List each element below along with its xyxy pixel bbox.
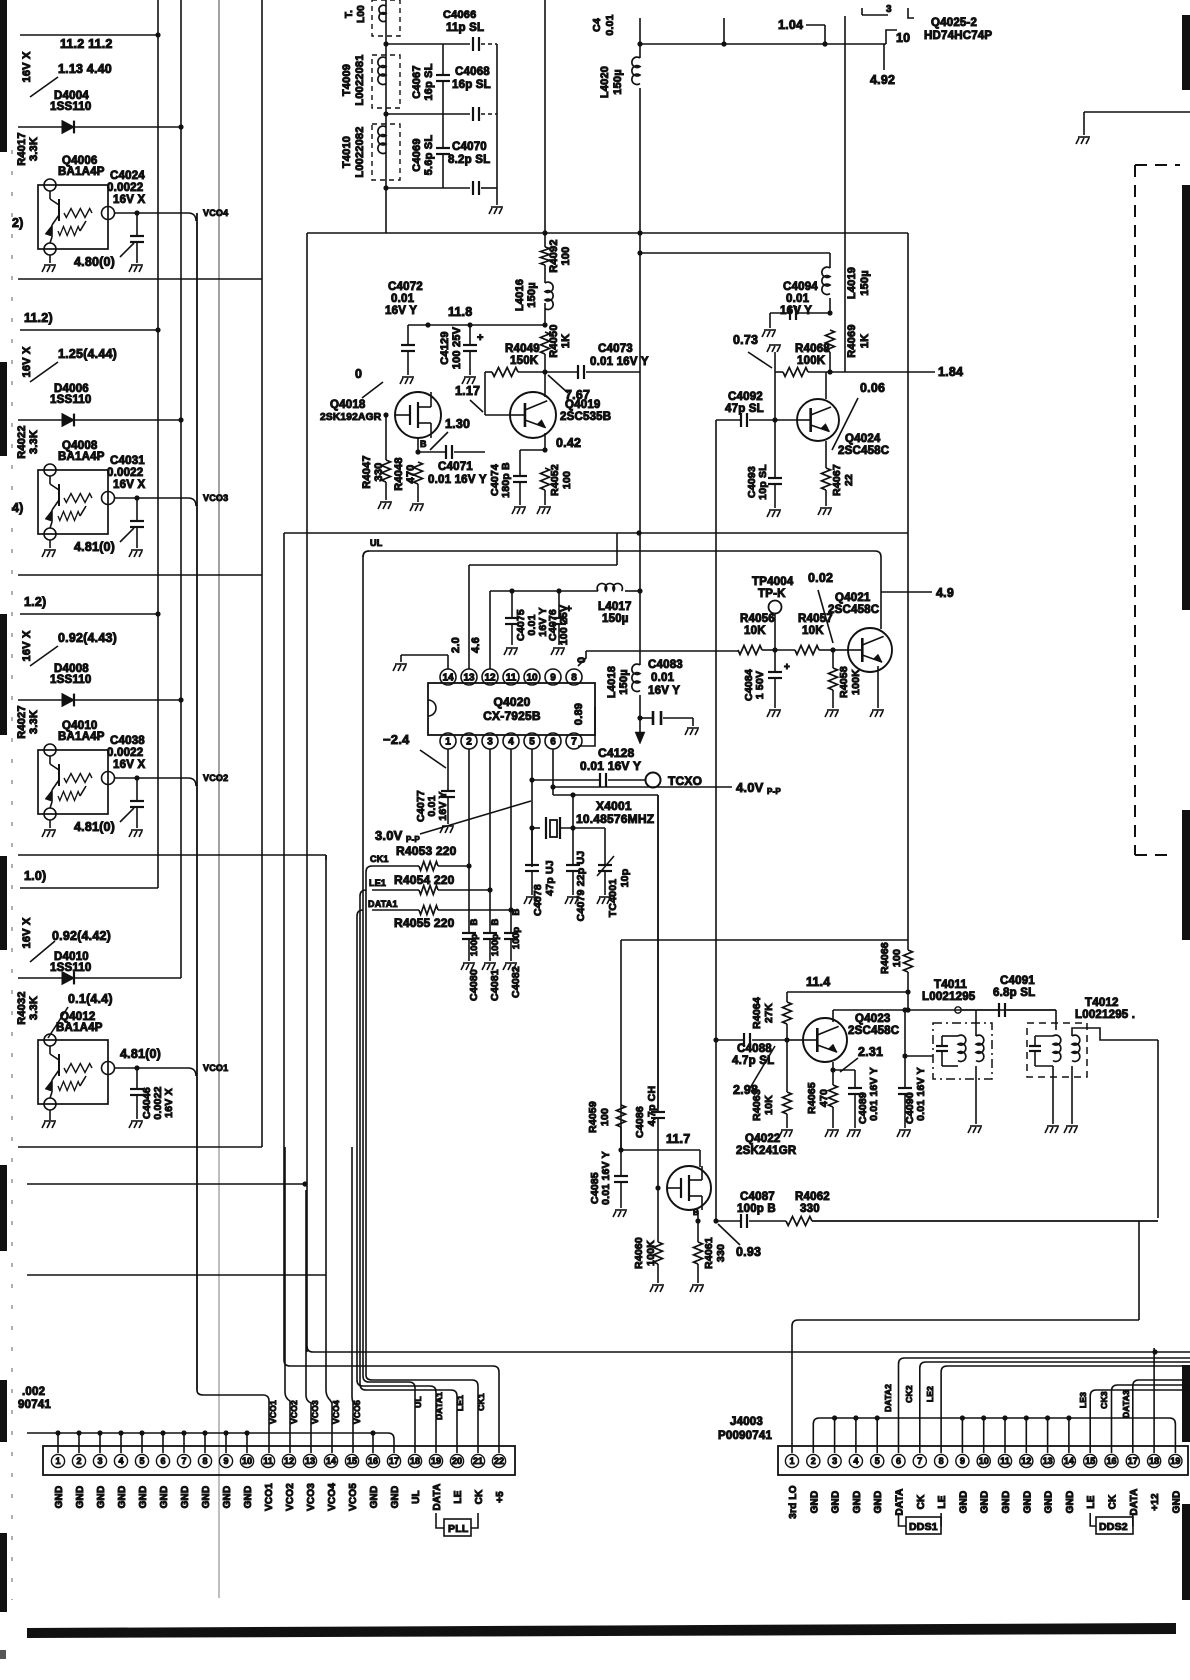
wire bus vertical +5 (283, 533, 285, 1360)
svg-text:100: 100 (891, 949, 903, 967)
svg-text:100: 100 (560, 247, 572, 266)
pin 9 J4002 (219, 1454, 232, 1467)
svg-text:11.2 11.2: 11.2 11.2 (60, 37, 113, 51)
svg-text:R4050: R4050 (548, 324, 560, 357)
svg-text:16V X: 16V X (21, 51, 33, 82)
wire leader 0.1(4.4) (48, 1007, 68, 1038)
svg-text:GND: GND (809, 1491, 820, 1514)
svg-text:0.0022: 0.0022 (107, 467, 143, 479)
svg-text:0.0022: 0.0022 (107, 747, 143, 759)
boundary dashed box (1135, 165, 1180, 855)
wire emitter Q4021 (877, 666, 879, 708)
pin 1 J4002 (51, 1454, 64, 1467)
svg-text:C4079 22p UJ: C4079 22p UJ (575, 851, 587, 922)
svg-text:C4066: C4066 (443, 9, 476, 21)
pin 19 J4003 (1169, 1454, 1182, 1467)
svg-text:10p SL: 10p SL (757, 464, 769, 500)
svg-text:L0022081: L0022081 (354, 54, 366, 105)
svg-text:2.31: 2.31 (858, 1045, 883, 1059)
svg-text:0.89: 0.89 (573, 703, 585, 725)
node TCXO (646, 773, 661, 788)
svg-text:5: 5 (139, 1456, 144, 1466)
svg-text:0.02: 0.02 (808, 571, 833, 585)
pin 16 J4002 (366, 1454, 379, 1467)
svg-text:10K: 10K (802, 625, 824, 637)
svg-text:C4088: C4088 (737, 1043, 772, 1055)
wire CK1 riser (366, 866, 478, 1453)
label 0.06 (832, 398, 858, 450)
pin 12 Q4020 (482, 669, 498, 685)
svg-text:GND: GND (1001, 1491, 1012, 1514)
svg-text:100: 100 (561, 471, 573, 489)
svg-text:CK: CK (916, 1494, 927, 1509)
svg-text:3: 3 (487, 737, 493, 748)
resistor R4058 100K (832, 650, 834, 668)
pin 14 J4003 (1062, 1454, 1075, 1467)
wire emitter (544, 433, 546, 450)
svg-text:C4068: C4068 (455, 66, 490, 78)
svg-text:90741: 90741 (18, 1399, 51, 1411)
svg-text:DDS2: DDS2 (1099, 1521, 1128, 1533)
svg-text:R4047: R4047 (361, 455, 373, 488)
svg-text:C4080: C4080 (468, 969, 480, 1001)
svg-text:R4056: R4056 (740, 613, 775, 625)
svg-text:330: 330 (373, 463, 385, 482)
wire source Q4022 (697, 1211, 699, 1221)
svg-text:DDS1: DDS1 (909, 1521, 938, 1533)
svg-text:C4086: C4086 (634, 1106, 646, 1138)
pin 15 J4002 (345, 1454, 358, 1467)
svg-text:GND: GND (159, 1486, 170, 1509)
svg-text:0.01 16V Y: 0.01 16V Y (580, 759, 641, 773)
pin 14 J4002 (324, 1454, 337, 1467)
svg-text:R4061: R4061 (703, 1237, 715, 1269)
svg-text:14: 14 (326, 1456, 336, 1466)
svg-text:6: 6 (896, 1456, 901, 1466)
svg-text:J4003: J4003 (730, 1416, 763, 1428)
node open circle (955, 1007, 961, 1013)
svg-text:Q4023: Q4023 (855, 1013, 891, 1025)
svg-text:3: 3 (97, 1456, 102, 1466)
pin 16 J4003 (1105, 1454, 1118, 1467)
wire VCO4 output (114, 212, 188, 214)
wire LE3 CK3 DATA3 (1090, 1390, 1190, 1453)
svg-text:R4066: R4066 (879, 942, 891, 974)
wire rail (284, 532, 908, 534)
svg-text:150µ: 150µ (618, 669, 630, 695)
pin 14 Q4020 (440, 669, 456, 685)
svg-text:DATA1: DATA1 (434, 1392, 444, 1420)
svg-text:100 25V: 100 25V (451, 326, 463, 369)
svg-text:1SS110: 1SS110 (50, 394, 92, 406)
svg-text:HD74HC74P: HD74HC74P (924, 30, 992, 42)
wire output rail (812, 1220, 1158, 1222)
wire GND bus J4002 (27, 1432, 388, 1434)
svg-text:1: 1 (55, 1456, 60, 1466)
capacitor C4071 0.01 16V Y (418, 451, 446, 453)
svg-text:0.06: 0.06 (860, 381, 885, 395)
svg-text:11p SL: 11p SL (446, 22, 484, 34)
label 0.93 (718, 1224, 740, 1245)
svg-text:TP-K: TP-K (758, 588, 786, 600)
svg-text:R4054 220: R4054 220 (394, 873, 455, 887)
svg-text:100K: 100K (850, 669, 862, 695)
svg-text:100p: 100p (511, 927, 522, 949)
svg-text:5: 5 (529, 737, 535, 748)
pin 5 Q4020 (524, 733, 540, 749)
svg-text:4.81(0): 4.81(0) (74, 540, 115, 554)
svg-text:B: B (469, 918, 480, 925)
svg-text:16V X: 16V X (21, 630, 33, 661)
svg-text:1: 1 (445, 737, 451, 748)
svg-text:16p SL: 16p SL (423, 63, 435, 100)
svg-text:10: 10 (979, 1456, 989, 1466)
wire UL riser (363, 551, 415, 1453)
svg-text:CK: CK (474, 1489, 485, 1504)
svg-text:16: 16 (1106, 1456, 1116, 1466)
svg-text:CK3: CK3 (1099, 1391, 1109, 1409)
svg-text:9: 9 (960, 1456, 965, 1466)
svg-text:100p: 100p (490, 934, 501, 956)
pin 10 Q4020 (524, 669, 540, 685)
svg-text:R4065: R4065 (806, 1082, 818, 1114)
svg-text:2SC458C: 2SC458C (828, 604, 879, 616)
wire DATA1 riser (357, 910, 436, 1453)
svg-text:0: 0 (576, 657, 588, 663)
wire L4017 rail (490, 590, 598, 592)
svg-text:BA1A4P: BA1A4P (58, 166, 105, 178)
svg-text:T4009: T4009 (341, 64, 353, 96)
svg-text:VCO4: VCO4 (327, 1483, 338, 1511)
wire FET source (417, 438, 419, 452)
svg-text:Q4024: Q4024 (845, 433, 881, 445)
wire 4.0Vp-p (552, 749, 554, 795)
inductor L4019 150u (829, 253, 831, 268)
wire (844, 16, 846, 372)
svg-text:27K: 27K (763, 1003, 775, 1023)
label 7.67 (548, 375, 568, 393)
svg-text:1K: 1K (859, 334, 871, 348)
wire top rail (640, 43, 886, 45)
svg-text:470: 470 (405, 465, 417, 484)
resistor R4052 100 (541, 468, 550, 490)
wire bus vertical (261, 0, 263, 1147)
resistor R4048 470 (414, 462, 423, 484)
svg-text:GND: GND (958, 1491, 969, 1514)
svg-text:UL: UL (413, 1396, 423, 1408)
svg-text:Q4021: Q4021 (835, 592, 871, 604)
svg-text:C4129: C4129 (439, 331, 451, 364)
svg-text:P-P: P-P (767, 787, 781, 796)
svg-text:C4070: C4070 (452, 141, 487, 153)
svg-text:1.2): 1.2) (24, 595, 46, 609)
wire (639, 233, 641, 591)
wire leader voltage (30, 646, 58, 666)
pin 17 J4003 (1126, 1454, 1139, 1467)
svg-text:Q4019: Q4019 (565, 399, 601, 411)
pin 8 Q4020 (566, 669, 582, 685)
svg-text:16V X: 16V X (113, 479, 145, 491)
svg-text:GND: GND (75, 1486, 86, 1509)
wire 11.8 rail (408, 324, 545, 326)
pin 2 J4002 (72, 1454, 85, 1467)
wire pin1 C4077 (447, 749, 449, 791)
svg-text:1 50V: 1 50V (754, 671, 766, 699)
pin 13 Q4020 (461, 669, 477, 685)
pin 4 J4002 (114, 1454, 127, 1467)
pin 7 J4003 (913, 1454, 926, 1467)
wire 11.7 (621, 1149, 700, 1151)
wire bus vertical (325, 855, 327, 1390)
svg-text:4: 4 (853, 1456, 858, 1466)
svg-text:C4087: C4087 (740, 1191, 775, 1203)
svg-text:2SC458C: 2SC458C (848, 1025, 899, 1037)
wire rail (18, 278, 262, 280)
svg-text:3: 3 (886, 4, 892, 15)
pin 5 J4003 (871, 1454, 884, 1467)
svg-text:20: 20 (452, 1456, 462, 1466)
svg-text:R4048: R4048 (393, 457, 405, 490)
svg-text:Q4020: Q4020 (493, 695, 530, 709)
svg-text:0.01 16V Y: 0.01 16V Y (428, 474, 487, 486)
svg-text:VCO3: VCO3 (306, 1483, 317, 1511)
wire bus vertical (351, 1147, 353, 1396)
svg-text:11: 11 (263, 1456, 273, 1466)
scan artifact left edge bars (0, 0, 7, 152)
wire VCO1 output (114, 1067, 188, 1069)
svg-text:12: 12 (484, 673, 496, 684)
svg-text:11.8: 11.8 (448, 305, 472, 319)
pin 18 J4002 (408, 1454, 421, 1467)
wire rail (27, 1183, 305, 1185)
pin 10 J4003 (977, 1454, 990, 1467)
svg-text:10K: 10K (763, 1095, 775, 1115)
wire rail (27, 1274, 326, 1276)
wire (385, 0, 387, 233)
svg-text:11.2): 11.2) (24, 311, 53, 325)
wire L4018 (639, 591, 641, 665)
scan artifact fold crease (218, 0, 220, 1147)
wire (774, 372, 776, 420)
svg-text:2SC458C: 2SC458C (838, 445, 889, 457)
svg-text:1SS110: 1SS110 (50, 674, 92, 686)
svg-text:T4012: T4012 (1085, 997, 1119, 1009)
svg-text:2: 2 (76, 1456, 81, 1466)
transistor Q4023 2SC458C (803, 1018, 847, 1062)
svg-text:3: 3 (832, 1456, 837, 1466)
pin 1 Q4020 (440, 733, 456, 749)
svg-text:C4128: C4128 (598, 746, 634, 760)
svg-text:0.01: 0.01 (651, 672, 675, 684)
svg-text:14: 14 (1064, 1456, 1074, 1466)
wire bus vertical (157, 0, 159, 888)
svg-text:1K: 1K (560, 334, 572, 348)
svg-text:0.01: 0.01 (391, 293, 415, 305)
svg-text:−2.4: −2.4 (383, 732, 410, 747)
svg-text:LE1: LE1 (369, 878, 386, 888)
svg-text:TCXO: TCXO (668, 774, 702, 788)
pin 19 J4002 (429, 1454, 442, 1467)
svg-text:GND: GND (138, 1486, 149, 1509)
pin 21 J4002 (471, 1454, 484, 1467)
wire bus vertical (306, 233, 308, 1352)
svg-text:12: 12 (284, 1456, 294, 1466)
svg-text:2.0: 2.0 (450, 637, 462, 653)
svg-text:19: 19 (1170, 1456, 1180, 1466)
svg-text:CK2: CK2 (904, 1385, 914, 1403)
svg-text:1.84: 1.84 (938, 365, 963, 379)
wire to Q4019 base (484, 372, 486, 415)
svg-text:LE3: LE3 (1078, 1392, 1088, 1408)
svg-text:0.73: 0.73 (733, 333, 758, 347)
svg-text:+: + (477, 332, 484, 344)
pin 6 J4002 (156, 1454, 169, 1467)
svg-text:0.92(4.43): 0.92(4.43) (58, 631, 117, 645)
svg-text:14: 14 (442, 673, 454, 684)
svg-text:GND: GND (96, 1486, 107, 1509)
svg-text:R4017: R4017 (16, 132, 28, 165)
svg-text:CK: CK (1108, 1494, 1119, 1509)
svg-text:2): 2) (12, 216, 24, 230)
svg-text:DATA2: DATA2 (883, 1384, 893, 1412)
wire bus vertical (180, 0, 182, 978)
svg-text:17: 17 (389, 1456, 399, 1466)
svg-text:6: 6 (550, 737, 556, 748)
svg-text:5: 5 (875, 1456, 880, 1466)
svg-text:10: 10 (896, 31, 910, 45)
svg-text:R4022: R4022 (16, 425, 28, 458)
svg-text:R4032: R4032 (16, 991, 28, 1024)
wire leader voltage (30, 362, 58, 382)
wire collector Q4023 (832, 1010, 834, 1022)
svg-text:C4024: C4024 (110, 170, 145, 182)
transistor Q4022 2SK241GR FET (667, 1166, 711, 1210)
svg-text:LE: LE (1086, 1495, 1097, 1508)
label 1.30 (430, 432, 448, 450)
svg-text:VCO5: VCO5 (348, 1483, 359, 1511)
pin 1 J4003 (785, 1454, 798, 1467)
svg-text:4.7p CH: 4.7p CH (646, 1086, 658, 1127)
thick separator bar bottom (27, 1623, 1176, 1638)
svg-text:GND: GND (1171, 1491, 1182, 1514)
wire leader voltage (30, 77, 58, 97)
wire pin3 column (489, 749, 491, 933)
svg-text:0.01: 0.01 (786, 293, 810, 305)
svg-text:330: 330 (800, 1203, 820, 1215)
svg-text:8: 8 (939, 1456, 944, 1466)
svg-text:GND: GND (873, 1491, 884, 1514)
svg-text:BA1A4P: BA1A4P (58, 451, 105, 463)
svg-text:13: 13 (1043, 1456, 1053, 1466)
wire pin2 column (468, 749, 470, 933)
svg-text:16V X: 16V X (163, 1088, 175, 1118)
svg-text:4.6: 4.6 (470, 637, 482, 653)
capacitor C4024 body (136, 213, 138, 236)
svg-text:R4052: R4052 (549, 464, 561, 496)
ground (1052, 1066, 1054, 1124)
svg-text:17: 17 (1128, 1456, 1138, 1466)
wire DATA2 CK2 LE2 (899, 1358, 1190, 1453)
svg-text:15: 15 (347, 1456, 357, 1466)
ground (774, 352, 776, 372)
svg-text:LE: LE (453, 1490, 464, 1503)
svg-text:VCO2: VCO2 (203, 773, 228, 783)
svg-text:Q4022: Q4022 (745, 1133, 781, 1145)
svg-text:8.2p SL: 8.2p SL (448, 154, 490, 166)
svg-text:CK1: CK1 (476, 1393, 486, 1411)
capacitor C4078 47p UJ (531, 828, 533, 865)
pin 4 Q4020 (503, 733, 519, 749)
svg-text:L4020: L4020 (599, 66, 611, 98)
pin 13 J4002 (303, 1454, 316, 1467)
svg-text:C4083: C4083 (648, 659, 683, 671)
resistor R4050 1K (541, 332, 550, 354)
svg-text:L4016: L4016 (514, 279, 526, 311)
svg-text:9: 9 (550, 673, 556, 684)
wire LE1 riser (360, 890, 457, 1453)
svg-text:0.0022: 0.0022 (107, 182, 143, 194)
svg-text:L0021295: L0021295 (922, 991, 976, 1003)
svg-text:TP4004: TP4004 (752, 576, 794, 588)
pin 5 J4002 (135, 1454, 148, 1467)
pin 13 J4003 (1041, 1454, 1054, 1467)
svg-text:1.25(4.44): 1.25(4.44) (58, 347, 117, 361)
pin 9 J4003 (956, 1454, 969, 1467)
pin 6 J4003 (892, 1454, 905, 1467)
svg-text:10p: 10p (619, 869, 631, 888)
svg-text:L00: L00 (356, 5, 367, 23)
svg-text:VCO2: VCO2 (285, 1483, 296, 1511)
svg-text:0.01 16V Y: 0.01 16V Y (915, 1067, 927, 1121)
inductor L4016 150u (544, 265, 546, 283)
svg-text:0.01 16V Y: 0.01 16V Y (600, 1151, 612, 1205)
ground (1071, 1066, 1073, 1124)
svg-text:2: 2 (811, 1456, 816, 1466)
wire VCO3 output (114, 497, 188, 499)
svg-text:3.3K: 3.3K (28, 137, 40, 161)
svg-text:C4081: C4081 (489, 969, 501, 1001)
svg-text:10: 10 (242, 1456, 252, 1466)
svg-text:LE1: LE1 (455, 1395, 465, 1411)
svg-text:C4038: C4038 (110, 735, 145, 747)
svg-text:11: 11 (1000, 1456, 1010, 1466)
pin 8 J4002 (198, 1454, 211, 1467)
svg-text:GND: GND (1065, 1491, 1076, 1514)
svg-text:6: 6 (160, 1456, 165, 1466)
svg-text:16: 16 (368, 1456, 378, 1466)
scan artifact right edge bars (1182, 15, 1190, 90)
svg-text:0.42: 0.42 (556, 436, 581, 450)
svg-text:0.93: 0.93 (736, 1245, 761, 1259)
wire T4012 output (1072, 1028, 1158, 1040)
svg-text:L4019: L4019 (846, 267, 858, 299)
svg-text:LE: LE (937, 1495, 948, 1508)
wire pin7 (578, 707, 595, 746)
wire VCO bus vertical (196, 213, 198, 1390)
wire rail (18, 574, 262, 576)
svg-text:1: 1 (789, 1456, 794, 1466)
pin 3 J4002 (93, 1454, 106, 1467)
wire leader VCO1 (30, 941, 55, 962)
pin 11 J4002 (261, 1454, 274, 1467)
wire (640, 252, 830, 254)
ground (975, 1066, 977, 1124)
resistor R4047 330 (385, 415, 387, 460)
wire pin5 TCXO (531, 749, 533, 867)
svg-text:+12: +12 (1150, 1493, 1161, 1511)
svg-text:VCO1: VCO1 (203, 1063, 228, 1073)
svg-text:L4017: L4017 (598, 601, 632, 613)
